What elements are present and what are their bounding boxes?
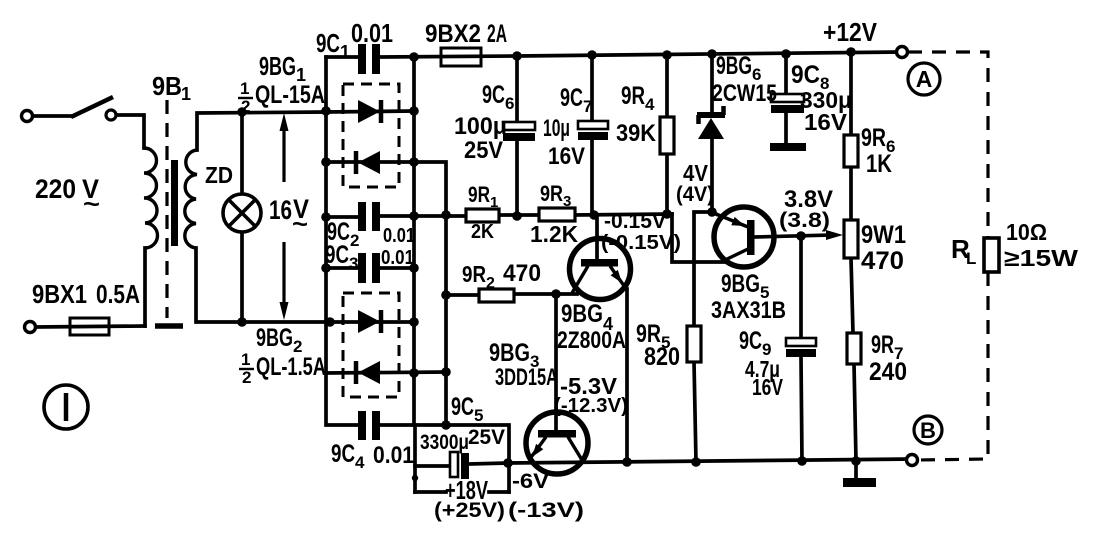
label (-13V) [508,499,584,522]
label 3300u 25V [420,426,505,454]
transistor 9BG4 [570,239,631,300]
svg-text:1K: 1K [866,150,892,178]
wire: 9BG4 base stub [595,215,599,259]
svg-text:240: 240 [869,358,907,386]
wire: minus rail bottom [415,459,912,466]
wire: output divider column 9R6 9W1 9R7 [851,52,856,478]
svg-text:3DD15A: 3DD15A [495,364,558,391]
svg-text:4: 4 [355,453,365,472]
svg-text:(-12.3V): (-12.3V) [554,395,628,417]
node A terminal [897,47,908,58]
label 9BG5 3AX31B [711,270,786,324]
svg-text:9C: 9C [325,241,349,269]
label 9C6 100u 25V [454,81,514,164]
svg-text:9R: 9R [462,261,486,287]
junction dots misc [412,207,806,481]
svg-text:(-0.15V): (-0.15V) [601,232,681,254]
svg-text:L: L [966,249,976,268]
svg-text:9R: 9R [468,182,490,207]
svg-text:QL-1.5A: QL-1.5A [256,353,326,381]
16V measuring arrow lower [280,242,289,320]
terminal: switch right [106,110,116,120]
svg-text:25V: 25V [468,426,505,449]
ground bar under 9C8 [770,143,806,151]
junction dots top rail [512,47,856,61]
label half QL-15A [240,79,325,116]
16V measuring arrow upper [280,113,289,182]
svg-text:2: 2 [242,368,251,387]
wire: bridge left vertical bus [324,57,328,425]
label 16V secondary [269,194,309,238]
node label B circled [914,416,942,444]
wire: 9C3 line [326,266,414,270]
label 9C3 [325,241,414,273]
label 9BG3 3DD15A [489,339,558,391]
svg-text:9R: 9R [861,124,886,152]
wire: 9BG5 emitter to zener and 9R5 [694,212,716,462]
label 9C2 [327,218,415,250]
junction dots bridge 9BG1 [321,52,419,167]
circled numeral I [44,385,88,429]
svg-text:9BX2: 9BX2 [425,20,481,48]
diode 9BG1 lower [356,151,380,174]
wire: 9R2 line [446,294,577,295]
svg-text:(-13V): (-13V) [508,499,584,522]
svg-text:3: 3 [349,254,358,273]
label 9W1 470 [861,221,906,275]
svg-text:2A: 2A [487,20,507,48]
svg-text:9C: 9C [791,61,820,89]
svg-text:10μ: 10μ [543,115,570,142]
wire: 9C1 left lead [326,55,360,59]
label 9R1 2K [468,182,498,243]
svg-text:1: 1 [181,84,191,104]
label half QL-1.5A [241,350,326,387]
svg-text:9W1: 9W1 [861,221,906,249]
wire: diode row 2 bridge 9BG2 [326,372,446,373]
svg-text:9B: 9B [152,71,182,101]
wire: 9R4 branch [665,55,669,214]
svg-text:39K: 39K [616,120,657,147]
svg-text:(4V): (4V) [676,183,714,206]
label 9C5 [451,393,483,425]
label 9C7 10u 16V [543,84,592,170]
wire: switch right lead to transformer primary top [117,115,144,148]
wire: 9C8 branch [784,54,788,143]
svg-text:16: 16 [269,195,292,225]
label (+25V) [434,499,505,522]
svg-text:9C: 9C [739,327,762,355]
junction dots bottom rail [503,456,861,468]
svg-text:3: 3 [563,193,571,210]
wire: 9C5 left vertical [413,425,417,492]
wire: diode row 2 bridge 9BG1 to minus bus [326,162,446,425]
capacitor 9C7 electrolytic [578,121,608,140]
svg-text:10Ω: 10Ω [1006,219,1047,245]
svg-text:9C: 9C [331,440,355,468]
wire: +18V label hook [415,490,509,494]
svg-text:0.01: 0.01 [351,18,393,48]
svg-text:100μ: 100μ [454,113,507,140]
svg-text:9C: 9C [451,393,474,421]
svg-text:0.5A: 0.5A [96,279,140,309]
label 9C9 4.7u 16V [739,327,783,400]
label 9R3 1.2K [530,181,578,247]
svg-text:A: A [916,66,933,92]
wire: bridge right vertical bus [412,57,416,425]
svg-text:(3.8): (3.8) [779,209,830,232]
svg-text:0.01: 0.01 [381,247,414,269]
transformer 9B1 secondary winding [185,150,197,248]
lamp ZD [223,194,261,232]
transformer 9B1 primary winding [144,148,158,248]
junction dots bridge 9BG2 [325,317,451,430]
svg-text:9BG: 9BG [489,339,530,367]
junction dots mid line [321,209,672,222]
svg-text:-6V: -6V [512,470,549,493]
diode 9BG2 lower [356,361,380,384]
resistor 9R3 [539,208,575,221]
fuse 9BX2 [441,48,481,66]
wire: 9BG5 base to 9W1 wiper [755,235,832,237]
fuse 9BX1 [70,318,109,335]
wire: secondary top AC rail [197,112,326,150]
svg-text:9C: 9C [482,81,505,109]
load RL dashed loop [908,52,988,460]
svg-text:-0.15V: -0.15V [604,210,666,233]
svg-text:1: 1 [240,79,249,98]
label 9R5 820 [636,320,680,371]
wire: 9C4 line y425 [329,425,509,492]
svg-text:0.01: 0.01 [383,225,415,247]
label 9C8 330u 16V [791,61,852,135]
svg-text:4: 4 [645,95,655,114]
wire: mid divider line y216 [326,214,672,217]
svg-text:~: ~ [83,191,100,218]
wire: 9BG4 emitter lead [625,289,629,462]
label 9R7 240 [869,331,907,386]
svg-text:≥15W: ≥15W [1004,245,1078,271]
diode 9BG1 upper [358,100,381,123]
terminal: AC input bottom [25,322,36,333]
wire: zener 9BG6 branch [710,54,714,212]
zener diode 9BG6 [697,106,725,139]
wire: transformer primary bottom lead [143,248,147,326]
svg-text:2: 2 [486,275,495,292]
label 9BG1 [259,51,306,85]
label 220V mains [35,174,100,218]
svg-text:0.01: 0.01 [373,442,414,469]
wire: diode row 1 bridge 9BG1 [326,111,414,112]
svg-text:220: 220 [35,174,76,204]
wire: 9BG5 collector to divider node [667,214,726,262]
capacitor 9C4 [358,411,380,440]
capacitor 9C9 electrolytic [786,338,816,357]
resistor 9R1 [466,209,499,222]
svg-text:470: 470 [861,247,904,275]
svg-text:5: 5 [474,406,483,425]
svg-text:1: 1 [490,194,498,211]
capacitor 9C2 [358,202,380,231]
svg-text:470: 470 [503,260,541,287]
transformer 9B1 core dashed line [165,100,168,318]
diode 9BG2 upper [358,310,381,333]
node label A circled [908,63,940,95]
label 9R4 39K [616,82,657,147]
load resistor RL [984,238,999,272]
label 9BG6 2CW15 [712,52,777,107]
junction dots 9C3 line [321,263,419,273]
svg-text:16V: 16V [804,109,848,135]
label 9C1 [316,18,393,62]
svg-text:(+25V): (+25V) [434,499,505,522]
label 9BG4 2Z800A [557,300,626,354]
resistor 9R4 [660,117,674,154]
svg-text:1.2K: 1.2K [530,221,578,247]
svg-text:ZD: ZD [205,162,233,188]
label 9BG2 [256,324,302,356]
wire: switch left lead [33,114,73,118]
resistor 9R6 [844,135,858,167]
svg-text:9R: 9R [621,82,645,110]
fraction bars for half labels [238,98,254,369]
svg-text:1: 1 [340,42,350,62]
svg-text:7: 7 [583,97,592,116]
svg-text:3AX31B: 3AX31B [711,297,786,324]
label 9BX1 0.5A [32,279,140,309]
transformer 9B1 core bar [171,160,178,246]
resistor 9R2 [479,289,514,302]
label 9C4 [331,440,414,472]
label ZD [205,162,233,188]
label RL [951,234,976,268]
svg-text:2K: 2K [471,221,494,243]
svg-text:1: 1 [241,350,250,369]
label -6V [512,470,549,493]
svg-text:9BG: 9BG [259,51,296,81]
svg-text:2CW15: 2CW15 [712,80,777,107]
label 9BX2 2A [425,20,507,48]
label +12V [823,17,878,47]
svg-text:16V: 16V [752,374,783,400]
wire: 9C7 branch [590,55,594,215]
svg-text:+12V: +12V [823,17,878,47]
terminal: AC input top [22,111,33,122]
wire: 9BG3 base stub [554,294,558,430]
wire: lamp ZD bottom stub [240,231,244,322]
capacitor 9C6 electrolytic [503,122,535,141]
svg-text:~: ~ [292,211,308,238]
wire: secondary bottom AC rail [196,248,330,322]
svg-text:2: 2 [350,231,359,250]
svg-text:9C: 9C [560,84,583,112]
wire: lamp ZD top stub [240,112,244,195]
resistor 9R7 [847,333,861,364]
label -5.3V (-12.3V) [554,373,628,417]
rectifier 9BG1 dashed package box [343,84,399,187]
label 4V (4V) [676,160,714,206]
resistor 9R5 [687,326,701,362]
svg-text:6: 6 [505,94,514,113]
wire: diode row 1 bridge 9BG2 [330,320,414,324]
wire: +12V top rail [378,52,902,57]
svg-text:25V: 25V [464,137,503,164]
wire: 9C6 branch [515,56,519,216]
svg-text:9BG: 9BG [716,52,752,80]
node B terminal [907,455,918,466]
capacitor 9C8 electrolytic [771,94,804,113]
capacitor 9C5 electrolytic [450,452,469,479]
label 9B1 [152,71,191,104]
rectifier 9BG2 dashed package box [343,293,399,397]
svg-text:820: 820 [644,343,680,371]
ground symbol main [843,478,876,487]
label +18V [445,475,488,505]
svg-text:9BG: 9BG [256,324,293,352]
svg-text:9BG: 9BG [561,300,603,328]
svg-text:3300μ: 3300μ [420,431,469,454]
wire: fuse 9BX1 line [36,326,145,327]
capacitor 9C1 [358,44,380,74]
svg-text:9R: 9R [540,181,563,206]
switch S lever [71,97,113,117]
svg-text:QL-15A: QL-15A [255,81,325,109]
label 9R2 470 [462,260,541,292]
transistor 9BG3 [526,412,588,474]
svg-text:16V: 16V [548,143,585,170]
junction dots AC side [237,107,247,327]
transformer core bottom tick [155,323,183,329]
svg-text:9BG: 9BG [721,270,760,298]
transistor 9BG5 [714,207,774,267]
label -0.15V node [601,210,681,254]
svg-text:9BX1: 9BX1 [32,279,87,309]
label 10ohm >=15W [1004,219,1078,271]
svg-text:9C: 9C [316,28,340,58]
svg-text:2: 2 [241,97,250,116]
label 9R6 1K [861,124,895,178]
potentiometer 9W1 [826,220,858,258]
label 3.8V (3.8) [779,186,833,232]
capacitor 9C3 [358,253,380,283]
svg-text:9R: 9R [871,331,894,359]
svg-text:2Z800A: 2Z800A [557,327,626,354]
svg-text:B: B [920,418,936,443]
wire: 9C9 branch [801,236,802,461]
